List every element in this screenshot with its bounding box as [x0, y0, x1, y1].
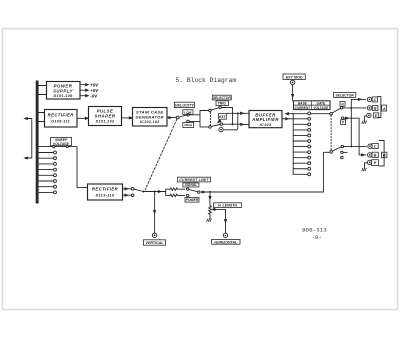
svg-text:SIGNAL: SIGNAL	[185, 183, 197, 187]
wire pnp contact to B2 terminal	[344, 118, 366, 155]
NPN label box	[340, 102, 345, 107]
pot wiper	[213, 209, 225, 233]
wire pole to right riser	[200, 191, 324, 193]
svg-text:AMPLIFIER: AMPLIFIER	[251, 117, 279, 122]
svg-text:+5V: +5V	[90, 88, 99, 93]
svg-text:+9V: +9V	[90, 83, 99, 88]
AC line arrow 1	[25, 118, 28, 120]
velocity switch pole node	[176, 116, 179, 119]
AC line primary wire	[25, 119, 32, 159]
right riser wire	[323, 152, 329, 192]
buffer amplifier box	[249, 111, 282, 128]
svg-text:-9V: -9V	[90, 94, 98, 99]
rectifier D113-118 box	[88, 184, 123, 200]
ladder contact on base-gate line	[308, 112, 311, 115]
main bottom wire run	[143, 191, 163, 193]
selector throw top	[219, 106, 222, 109]
svg-text:HIGH: HIGH	[184, 123, 193, 127]
selector throw bottom	[220, 123, 223, 126]
VERTICAL label box	[144, 240, 166, 245]
wire rectifier1 to pulse shaper	[77, 117, 86, 119]
lower contact 2 stub	[343, 151, 347, 153]
HORIZONTAL label box	[212, 239, 241, 244]
wire transformer to power supply	[39, 86, 47, 95]
wire buffer output to ladder top contact	[282, 118, 286, 120]
svg-text:RECTIFIER: RECTIFIER	[92, 187, 118, 192]
C feed vertical wire	[351, 99, 365, 146]
svg-text:C: C	[374, 144, 377, 148]
VERTICAL jack	[152, 233, 156, 237]
wire -9V output	[80, 95, 86, 97]
H LENGTH label box	[214, 203, 242, 208]
transformer T1 core bar	[36, 81, 39, 204]
sweep switch arm	[134, 189, 143, 191]
wire base/gate line to npn-pnp pole (left arrow into buffer)	[289, 113, 330, 115]
svg-text:D113-118: D113-118	[96, 193, 115, 197]
ground at socket A	[362, 121, 367, 124]
rectifier2 output top	[123, 188, 126, 190]
svg-text:SUPPLY: SUPPLY	[53, 88, 74, 93]
svg-text:EXT: EXT	[219, 115, 227, 119]
rectifier2 output bottom	[123, 194, 126, 196]
svg-text:D108-111: D108-111	[51, 120, 70, 124]
SWEEP VOLTAGE label box	[51, 138, 72, 146]
current limit arm	[189, 189, 198, 191]
power contact	[187, 194, 189, 196]
lower selector pole	[330, 151, 333, 154]
velocity contact HIGH	[187, 120, 190, 123]
EXT MOD label box	[283, 74, 305, 79]
ladder bus	[292, 113, 294, 174]
svg-text:HORIZONTAL: HORIZONTAL	[214, 240, 237, 244]
selector arm top	[211, 108, 219, 110]
base/gate current/voltage box	[294, 101, 331, 110]
velocity contact LOW	[187, 114, 190, 117]
contact dot on tap line 2	[66, 146, 68, 148]
svg-text:D101,102: D101,102	[96, 119, 115, 123]
SIGNAL label box	[183, 183, 199, 187]
B terminal jack	[367, 106, 371, 110]
wire transformer to rectifier1	[39, 113, 45, 122]
selector arm bottom	[211, 125, 220, 127]
junction to H length	[209, 191, 211, 193]
junction top throw / lower line	[232, 123, 234, 125]
EXT MOD jack	[290, 80, 294, 84]
svg-text:A: A	[382, 106, 386, 111]
VELOCITY label box	[174, 102, 194, 107]
svg-text:IC101,102: IC101,102	[140, 120, 160, 124]
wire ext line to buffer upper input	[227, 112, 241, 114]
svg-text:D101-109: D101-109	[54, 94, 74, 98]
junction ext riser / upper line	[237, 112, 239, 114]
wire lower contact1 to C2 terminal	[344, 145, 367, 147]
svg-text:VOLTAGE: VOLTAGE	[53, 142, 70, 146]
svg-text:B: B	[374, 153, 377, 157]
pulse shaper box	[89, 107, 122, 126]
lower contact 1	[341, 145, 343, 147]
SELECTOR mid label box	[212, 95, 231, 100]
resistor R power	[166, 194, 185, 197]
C2 terminal jack	[368, 144, 372, 148]
E2 label box	[372, 160, 379, 166]
svg-text:SELECTOR: SELECTOR	[335, 93, 354, 97]
svg-text:POWER: POWER	[186, 198, 199, 202]
EXT label pointer arrow	[219, 120, 221, 122]
HIGH label box	[183, 122, 194, 127]
svg-text:B: B	[374, 107, 377, 111]
junction C vertical / B wire	[350, 107, 352, 109]
lower selector arm	[332, 147, 341, 151]
wire top throw down to lower buffer line	[221, 108, 232, 124]
velocity switch arm	[179, 115, 187, 117]
staircase generator box	[133, 108, 168, 127]
dashed gang line velocity to sweep rectifier switch	[145, 119, 177, 190]
tap contact circles	[54, 151, 57, 194]
junction to vertical terminal	[154, 191, 156, 193]
wire +5V output	[80, 89, 86, 91]
A label box	[382, 105, 387, 111]
rectifier D108-111 box	[45, 110, 78, 128]
lower contact 3	[341, 156, 343, 158]
E terminal jack	[367, 113, 371, 117]
AC line arrow 2	[25, 157, 28, 159]
ground below pot	[207, 219, 212, 222]
signal contact	[187, 188, 189, 190]
pot ground wire	[209, 216, 211, 219]
wire staircase to velocity switch pole	[167, 117, 174, 119]
junction C vertical / C2 wire	[350, 145, 352, 147]
B bracket label box	[381, 152, 387, 158]
B2 terminal jack	[368, 153, 372, 157]
svg-text:VELOCITY: VELOCITY	[175, 104, 194, 108]
E label box	[373, 113, 378, 118]
svg-text:VERTICAL: VERTICAL	[146, 241, 164, 245]
svg-text:C: C	[374, 98, 377, 102]
npn/pnp selector pole upper	[330, 112, 333, 115]
ground at socket B	[362, 168, 367, 171]
vertical terminal drop wire	[154, 192, 156, 211]
svg-text:VOLTAGE: VOLTAGE	[313, 106, 329, 110]
selector gang dashed link	[210, 112, 212, 125]
svg-text:CURRENT LIMIT: CURRENT LIMIT	[179, 178, 209, 182]
resistor R signal	[166, 188, 185, 191]
svg-text:SHAPER: SHAPER	[95, 114, 116, 119]
svg-text:LOW: LOW	[184, 110, 192, 114]
sweep select contact bottom	[131, 194, 134, 197]
PNP label box	[341, 120, 346, 125]
EXT MOD drop wire	[292, 85, 294, 95]
lower contact 2	[341, 151, 343, 153]
socket A bracket	[378, 97, 381, 118]
svg-text:SELECTOR: SELECTOR	[213, 96, 232, 100]
EXT jack	[219, 127, 223, 131]
SELECTOR right label box	[334, 93, 356, 98]
svg-text:906-313: 906-313	[302, 227, 327, 234]
gang dashed upper to lower selector	[330, 115, 332, 150]
HORIZONTAL jack	[223, 233, 227, 237]
current limit split bracket	[163, 189, 165, 195]
npn/pnp upper arm	[332, 108, 341, 113]
LOW label box	[183, 110, 193, 115]
C2 label box	[372, 143, 378, 148]
svg-text:EXT MOD: EXT MOD	[286, 75, 303, 79]
H length drop	[209, 192, 211, 197]
CURRENT LIMIT label box	[178, 177, 211, 182]
svg-text:GENERATOR: GENERATOR	[136, 114, 164, 119]
wire E2 terminal to ground	[365, 163, 368, 168]
EXT jack wire riser	[224, 113, 238, 130]
svg-text:H. LENGTH: H. LENGTH	[218, 204, 237, 208]
EXT label box	[219, 114, 227, 120]
selector pole top	[209, 109, 212, 112]
current limit pole	[198, 191, 200, 193]
svg-text:RECTIFIER: RECTIFIER	[48, 113, 74, 118]
B label box	[373, 106, 378, 111]
wire pulse shaper to staircase	[122, 117, 130, 119]
svg-text:TRIG.: TRIG.	[218, 102, 227, 106]
selector pole bottom	[209, 126, 212, 128]
svg-text:-9-: -9-	[312, 234, 323, 241]
junction main run left	[142, 191, 144, 193]
sweep select contact top	[131, 188, 134, 191]
TRIG label box	[216, 101, 229, 106]
socket B bracket	[379, 141, 384, 166]
rectifier D113-118 sweep wires: tap selector line	[39, 147, 88, 188]
pnp contact upper	[342, 117, 344, 119]
svg-text:IC103: IC103	[260, 123, 272, 127]
ladder stubs and contacts	[293, 123, 310, 176]
npn contact upper	[341, 107, 343, 109]
wire E terminal to ground	[365, 116, 367, 121]
wire bottom throw to buffer lower input	[223, 123, 241, 125]
ladder top contact	[308, 117, 311, 120]
wire +9V output	[80, 84, 86, 86]
transformer taps	[39, 153, 54, 193]
svg-text:5. Block Diagram: 5. Block Diagram	[176, 77, 237, 84]
svg-text:CURRENT: CURRENT	[295, 106, 312, 110]
B2 label box	[372, 152, 378, 157]
C label box	[372, 97, 377, 102]
POWER label box	[185, 198, 199, 203]
H length potentiometer	[209, 206, 212, 216]
contact dot on tap line 1	[53, 146, 55, 148]
E2 terminal jack	[367, 160, 371, 164]
wire velocity contacts to selector bracket	[189, 111, 208, 127]
power supply U1 box	[47, 82, 81, 100]
svg-text:B: B	[383, 153, 386, 158]
wire to B terminal	[343, 107, 366, 109]
C terminal jack	[367, 97, 371, 101]
